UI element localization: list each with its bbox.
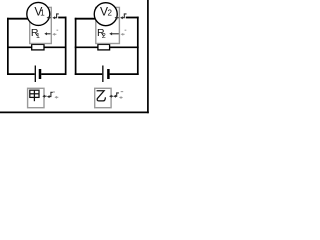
svg-text:1: 1: [40, 9, 45, 18]
line-break mark right of V1 frame (black): [54, 14, 59, 18]
battery 1 short plate: [39, 69, 42, 79]
wire: top rail right segment (from frame to corner): [58, 17, 66, 19]
battery 2 long plate: [102, 66, 104, 83]
wire: top rail left segment (to voltmeter): [7, 18, 29, 20]
marks right of box 甲: [44, 95, 47, 97]
svg-text:2: 2: [108, 9, 113, 18]
wire: top rail right segment: [126, 17, 139, 19]
wire: left vertical of loop 1: [7, 18, 9, 75]
wire: bottom rail left of battery 1: [7, 73, 35, 75]
line-break mark right of V2 frame (black): [122, 14, 127, 18]
return mark after V2 (black arrow): [116, 17, 119, 19]
wire: top rail left segment (to voltmeter 2): [75, 18, 96, 20]
wire: mid rail with resistor (loop 2): [75, 46, 139, 48]
box 乙 (gray border): [95, 88, 111, 107]
marks right of box 乙: [110, 95, 113, 97]
gray text frame around V1/R1 labels: [30, 7, 52, 43]
cell right border: [147, 0, 149, 113]
svg-text:2: 2: [102, 33, 106, 40]
cell bottom border: [0, 111, 149, 113]
wire: mid rail with resistor (loop 1): [7, 46, 67, 48]
resistor symbol (loop 2): [98, 44, 110, 50]
return mark after V1 (black arrow): [48, 17, 51, 19]
battery 2 short plate: [107, 69, 110, 79]
character 甲: [30, 90, 39, 101]
svg-text:1: 1: [36, 33, 40, 40]
box 甲 (gray border): [28, 88, 44, 107]
character 乙: [97, 91, 106, 101]
battery 1 long plate: [34, 66, 36, 83]
gray mark right of R2 frame: [122, 30, 126, 34]
wire: bottom rail right of battery 2: [110, 73, 139, 75]
voltmeter V1 circle: [27, 2, 50, 25]
wire: right vertical of loop 2: [137, 17, 139, 75]
wire: right vertical of loop 1: [65, 17, 67, 75]
gray mark right of R1 frame: [54, 30, 59, 34]
resistor symbol (loop 1): [32, 44, 44, 50]
wire: bottom rail left of battery 2: [75, 73, 102, 75]
arrow after R1 (black): [46, 33, 51, 35]
gray text frame around V2/R2 labels: [96, 7, 120, 43]
wire: bottom rail right of battery 1: [41, 73, 66, 75]
wire: left vertical of loop 2: [75, 18, 77, 75]
arrow after R2 (black): [111, 33, 119, 35]
voltmeter V2 circle: [94, 3, 117, 26]
